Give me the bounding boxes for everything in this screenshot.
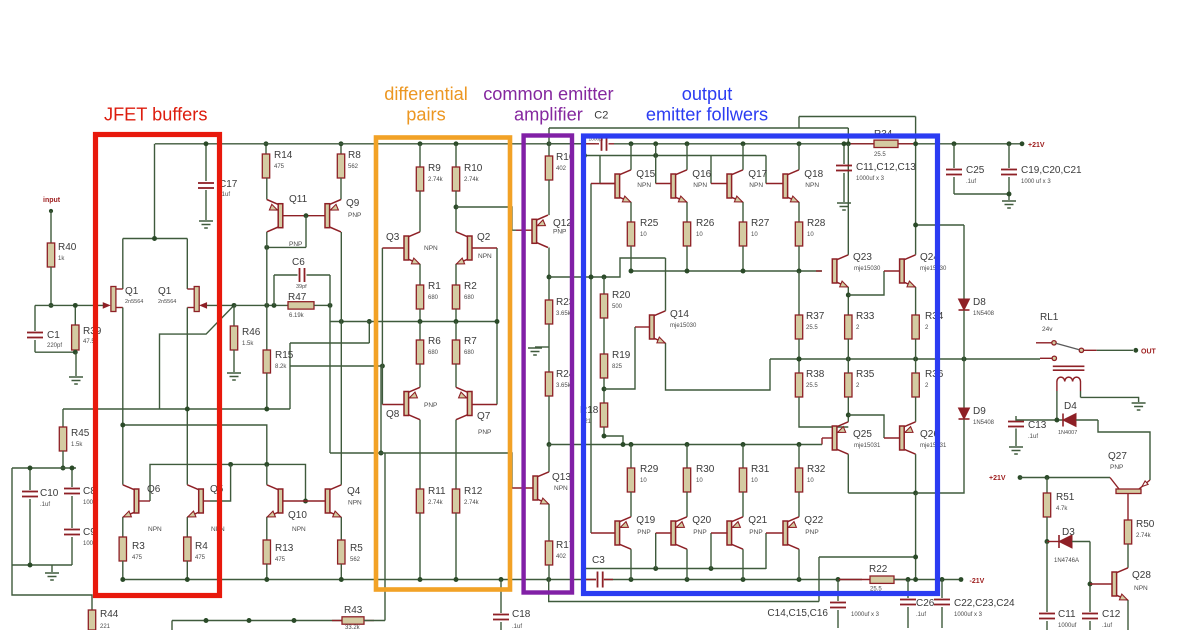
svg-text:10: 10 [640,232,647,238]
svg-text:Q23: Q23 [853,252,872,263]
svg-text:25.5: 25.5 [874,152,886,158]
svg-text:C13: C13 [1028,420,1047,431]
svg-text:OUT: OUT [1141,349,1157,356]
svg-text:R32: R32 [807,464,826,475]
svg-text:common emitter: common emitter [483,84,613,104]
svg-text:.1uf: .1uf [1102,623,1112,629]
svg-text:24v: 24v [1042,326,1053,333]
svg-text:402: 402 [556,554,567,560]
svg-text:Q20: Q20 [692,515,711,526]
svg-text:NPN: NPN [805,182,819,189]
svg-text:NPN: NPN [1134,585,1148,592]
svg-text:10: 10 [696,232,703,238]
svg-text:C2: C2 [594,110,608,122]
svg-text:R11: R11 [428,486,446,497]
svg-text:mje15030: mje15030 [670,323,697,329]
svg-text:C26: C26 [916,598,935,609]
svg-text:10: 10 [640,478,647,484]
svg-text:R29: R29 [640,464,659,475]
svg-text:amplifier: amplifier [514,105,583,125]
svg-text:1000uf x 3: 1000uf x 3 [851,612,880,618]
svg-text:R50: R50 [1136,519,1155,530]
svg-text:D3: D3 [1062,527,1075,538]
svg-text:PNP: PNP [805,529,818,536]
svg-text:+21V: +21V [1028,142,1045,149]
svg-text:1.5k: 1.5k [242,341,254,347]
svg-text:1N4007: 1N4007 [1058,430,1077,436]
svg-text:25.5: 25.5 [806,325,818,331]
svg-text:3.65k: 3.65k [556,383,572,389]
svg-text:2n5564: 2n5564 [125,299,143,305]
svg-text:Q19: Q19 [636,515,655,526]
svg-text:475: 475 [195,555,206,561]
svg-text:Q13: Q13 [552,472,571,483]
svg-text:R35: R35 [856,369,875,380]
svg-text:PNP: PNP [749,529,762,536]
svg-text:R28: R28 [807,218,826,229]
svg-text:25.5: 25.5 [806,383,818,389]
svg-text:2n5564: 2n5564 [158,299,176,305]
svg-text:562: 562 [350,557,361,563]
svg-text:680: 680 [428,350,439,356]
svg-text:C14,C15,C16: C14,C15,C16 [767,608,828,619]
svg-text:Q21: Q21 [748,515,767,526]
svg-text:Q25: Q25 [853,429,872,440]
svg-text:R10: R10 [464,163,483,174]
svg-text:6.19k: 6.19k [289,313,305,319]
svg-text:C11,C12,C13: C11,C12,C13 [856,162,916,173]
svg-text:C6: C6 [292,257,305,268]
svg-text:R20: R20 [612,290,631,301]
svg-text:475: 475 [275,557,286,563]
svg-text:pairs: pairs [406,105,445,125]
svg-text:D8: D8 [973,297,986,308]
svg-text:differential: differential [384,84,468,104]
svg-text:Q9: Q9 [346,198,360,209]
svg-text:475: 475 [274,164,285,170]
svg-text:Q22: Q22 [804,515,823,526]
svg-text:Q27: Q27 [1108,451,1127,462]
svg-text:mje15031: mje15031 [854,443,881,449]
svg-text:221: 221 [100,624,111,630]
svg-text:680: 680 [428,295,439,301]
svg-text:R2: R2 [464,281,477,292]
svg-text:R40: R40 [58,242,77,253]
svg-text:.1uf: .1uf [40,502,50,508]
svg-text:10: 10 [807,478,814,484]
svg-text:10: 10 [807,232,814,238]
svg-text:R47: R47 [288,292,307,303]
svg-text:Q2: Q2 [477,232,491,243]
svg-text:NPN: NPN [148,526,162,533]
svg-text:825: 825 [612,364,623,370]
svg-text:JFET buffers: JFET buffers [104,105,207,125]
svg-text:PNP: PNP [553,229,566,236]
svg-text:-21V: -21V [970,578,985,585]
svg-text:C18: C18 [512,609,531,620]
svg-text:Q14: Q14 [670,309,689,320]
svg-text:Q3: Q3 [386,232,400,243]
svg-text:10: 10 [696,478,703,484]
svg-text:R14: R14 [274,150,293,161]
svg-text:NPN: NPN [637,182,651,189]
svg-text:C19,C20,C21: C19,C20,C21 [1021,165,1082,176]
svg-text:.1uf: .1uf [916,612,926,618]
svg-text:PNP: PNP [348,212,361,219]
svg-text:4.7k: 4.7k [1056,506,1068,512]
svg-text:3.65k: 3.65k [556,311,572,317]
svg-text:R5: R5 [350,543,363,554]
svg-text:PNP: PNP [637,529,650,536]
svg-text:+21V: +21V [989,475,1006,482]
svg-text:Q18: Q18 [804,169,823,180]
svg-text:2.74k: 2.74k [428,500,444,506]
svg-text:R38: R38 [806,369,825,380]
svg-text:1000uf x 3: 1000uf x 3 [856,176,885,182]
svg-text:2.74k: 2.74k [464,177,480,183]
svg-text:emitter follwers: emitter follwers [646,105,768,125]
svg-text:R31: R31 [751,464,770,475]
svg-text:PNP: PNP [1110,464,1123,471]
svg-text:R26: R26 [696,218,715,229]
svg-text:C22,C23,C24: C22,C23,C24 [954,598,1015,609]
svg-text:1k: 1k [58,256,65,262]
svg-text:input: input [43,197,61,204]
svg-text:C3: C3 [592,555,605,566]
svg-text:680: 680 [464,295,475,301]
svg-text:R37: R37 [806,311,825,322]
svg-text:10: 10 [751,232,758,238]
svg-text:Q1: Q1 [158,286,172,297]
svg-text:NPN: NPN [478,253,492,260]
svg-text:R8: R8 [348,150,361,161]
svg-text:output: output [682,84,733,104]
svg-text:R25: R25 [640,218,659,229]
svg-text:D4: D4 [1064,401,1077,412]
svg-text:Q12: Q12 [553,218,572,229]
svg-text:Q6: Q6 [147,484,161,495]
svg-text:NPN: NPN [749,182,763,189]
svg-text:R13: R13 [275,543,294,554]
svg-text:Q16: Q16 [692,169,711,180]
svg-text:R7: R7 [464,336,477,347]
svg-text:Q17: Q17 [748,169,767,180]
svg-text:C10: C10 [40,488,59,499]
svg-text:.1uf: .1uf [966,179,976,185]
svg-text:Q28: Q28 [1132,570,1151,581]
svg-text:1000uf: 1000uf [1058,623,1077,629]
svg-text:R1: R1 [428,281,441,292]
svg-text:R19: R19 [612,350,631,361]
svg-text:mje15030: mje15030 [920,266,947,272]
svg-text:R27: R27 [751,218,770,229]
svg-text:R30: R30 [696,464,715,475]
svg-text:.1uf: .1uf [1028,434,1038,440]
svg-text:1000 uf x 3: 1000 uf x 3 [1021,179,1051,185]
svg-text:Q15: Q15 [636,169,655,180]
svg-text:39pf: 39pf [296,284,307,290]
svg-text:R39: R39 [83,326,102,337]
svg-text:562: 562 [348,164,359,170]
svg-text:C1: C1 [47,330,60,341]
svg-text:1N5408: 1N5408 [973,311,995,317]
svg-text:R34: R34 [925,311,944,322]
svg-text:.1uf: .1uf [512,624,522,630]
svg-text:Q10: Q10 [288,510,307,521]
svg-text:1.5k: 1.5k [71,442,83,448]
svg-text:NPN: NPN [348,500,362,507]
svg-text:220pf: 220pf [47,343,62,349]
svg-text:PNP: PNP [478,429,491,436]
svg-text:R15: R15 [275,350,294,361]
svg-text:Q11: Q11 [289,194,308,205]
svg-text:R12: R12 [464,486,483,497]
svg-text:PNP: PNP [424,402,437,409]
svg-text:D9: D9 [973,406,986,417]
svg-text:2.74k: 2.74k [428,177,444,183]
svg-text:R4: R4 [195,541,208,552]
svg-text:2.74k: 2.74k [1136,533,1152,539]
svg-text:NPN: NPN [693,182,707,189]
svg-text:10: 10 [751,478,758,484]
svg-text:C25: C25 [966,165,985,176]
svg-text:1N5408: 1N5408 [973,420,995,426]
svg-text:R22: R22 [869,564,888,575]
svg-text:NPN: NPN [292,526,306,533]
svg-text:1000uf x 3: 1000uf x 3 [954,612,983,618]
svg-text:475: 475 [132,555,143,561]
svg-text:C11: C11 [1058,609,1076,620]
svg-text:R51: R51 [1056,492,1075,503]
svg-text:33.2k: 33.2k [345,625,361,630]
svg-text:NPN: NPN [554,485,568,492]
svg-text:R9: R9 [428,163,441,174]
svg-text:500: 500 [612,304,623,310]
svg-text:mje15030: mje15030 [854,266,881,272]
svg-text:R45: R45 [71,428,90,439]
svg-text:2.74k: 2.74k [464,500,480,506]
svg-text:NPN: NPN [424,245,438,252]
svg-text:PNP: PNP [693,529,706,536]
svg-text:R44: R44 [100,609,119,620]
svg-text:680: 680 [464,350,475,356]
svg-text:8.2k: 8.2k [275,364,287,370]
svg-text:R46: R46 [242,327,261,338]
svg-text:R36: R36 [925,369,944,380]
svg-text:mje15031: mje15031 [920,443,947,449]
svg-text:R33: R33 [856,311,875,322]
svg-text:1N4746A: 1N4746A [1054,558,1079,564]
svg-text:Q1: Q1 [125,286,139,297]
svg-text:R3: R3 [132,541,145,552]
svg-text:402: 402 [556,166,567,172]
svg-text:C12: C12 [1102,609,1121,620]
svg-text:R6: R6 [428,336,441,347]
svg-text:Q4: Q4 [347,486,361,497]
svg-text:R43: R43 [344,605,363,616]
svg-text:Q8: Q8 [386,409,400,420]
svg-text:Q7: Q7 [477,411,491,422]
svg-text:RL1: RL1 [1040,312,1059,323]
